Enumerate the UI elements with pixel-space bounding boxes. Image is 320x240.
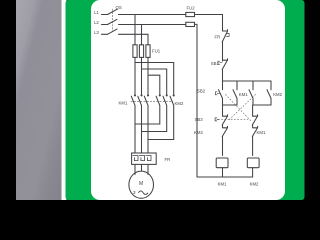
- wire join branch1: [223, 104, 238, 106]
- wire branch1 down: [222, 105, 224, 116]
- svg-text:KM2: KM2: [250, 182, 259, 187]
- wire join phase a: [135, 123, 160, 125]
- wire FU2 to control rail: [195, 15, 223, 31]
- label ~: [138, 191, 148, 194]
- contact KM2 aux NO: [267, 90, 271, 105]
- svg-text:L2: L2: [94, 20, 99, 25]
- thermal overload FR box: [132, 153, 157, 164]
- wire L2 drop: [141, 25, 143, 45]
- wire L3: [119, 33, 149, 35]
- wire L3 drop: [147, 34, 149, 45]
- white gap strip: [62, 0, 67, 200]
- wire bottom bus: [197, 176, 253, 178]
- svg-text:FU1: FU1: [152, 48, 161, 53]
- svg-text:QS: QS: [116, 5, 122, 10]
- QS linkage dashed: [112, 9, 114, 32]
- breaker FR NC contact: [223, 30, 228, 31]
- coil KM1: [216, 158, 228, 168]
- contactor KM1 main contacts: [131, 95, 148, 153]
- QS blade L2: [108, 19, 118, 24]
- svg-text:KM1: KM1: [218, 182, 227, 187]
- coil KM2: [247, 158, 259, 168]
- svg-text:FU2: FU2: [187, 5, 196, 10]
- mechanical link dashes: [222, 95, 256, 121]
- wire L2: [102, 24, 108, 26]
- contact KM2 NC interlock: [222, 126, 227, 155]
- svg-text:L1: L1: [94, 10, 99, 15]
- wire L3: [102, 33, 108, 35]
- wire branch2 down: [252, 105, 254, 116]
- svg-text:KM2: KM2: [194, 130, 203, 135]
- wire branch L2 to KM2 mid column: [142, 69, 167, 94]
- wire branch L1 to KM2 right column: [135, 63, 174, 95]
- green frame: [66, 0, 305, 200]
- QS blade L1: [108, 9, 118, 14]
- button SB3 NO contact: [249, 90, 253, 105]
- motor M: [129, 171, 154, 198]
- contact KM1 aux NO: [233, 90, 237, 105]
- button SB3 NC contact: [222, 115, 227, 125]
- wire join branch2: [253, 104, 271, 106]
- button SB2 NC contact: [252, 115, 257, 125]
- QS blade L3: [108, 29, 118, 34]
- svg-text:SB3: SB3: [195, 117, 204, 122]
- wire FR to motor: [135, 164, 148, 174]
- wire coil bottoms: [223, 168, 253, 177]
- svg-text:FR: FR: [215, 35, 221, 40]
- svg-text:SB2: SB2: [197, 89, 206, 94]
- gray side panel: [16, 0, 62, 200]
- wire L1: [102, 14, 108, 16]
- fuse FU1 c: [146, 45, 150, 58]
- bus node A: [223, 80, 272, 82]
- fuse FU1 b: [139, 45, 143, 58]
- fuse FU1 a: [133, 45, 137, 58]
- svg-text:FR: FR: [165, 157, 171, 162]
- wire L1 to FU2: [119, 14, 186, 16]
- wire branch L3 to KM2 left column: [148, 75, 160, 94]
- svg-text:KM1: KM1: [239, 92, 248, 97]
- svg-text:SB1: SB1: [211, 61, 220, 66]
- svg-text:KM1: KM1: [257, 130, 266, 135]
- svg-text:KM2: KM2: [273, 92, 282, 97]
- svg-text:KM1: KM1: [119, 100, 128, 105]
- svg-text:M: M: [139, 181, 143, 187]
- button SB1 NC: [223, 59, 228, 60]
- wire phase V down: [141, 57, 143, 94]
- wire FU2 to left control rail: [195, 24, 198, 177]
- wire drops row1: [223, 81, 272, 90]
- wire join phase b: [142, 131, 167, 133]
- fuse FU2 bottom: [186, 22, 195, 26]
- wire L1 drop: [134, 15, 136, 45]
- interlock dashed link KM1-KM2: [131, 100, 173, 102]
- svg-text:L3: L3: [94, 30, 99, 35]
- wire to row3: [223, 125, 253, 127]
- wire L2 to FU2: [119, 24, 186, 26]
- svg-text:3: 3: [133, 190, 136, 196]
- wire phase U down: [134, 57, 136, 94]
- button SB2 NO contact: [219, 90, 223, 105]
- contact KM1 NC interlock: [252, 126, 257, 155]
- FR heater elements: [133, 156, 151, 161]
- svg-text:KM2: KM2: [175, 101, 184, 106]
- contactor KM2 main contacts: [156, 95, 174, 140]
- fuse FU2 top: [186, 12, 195, 16]
- wire join phase c: [148, 139, 174, 141]
- wire phase W down: [147, 57, 149, 94]
- white card: [91, 0, 285, 200]
